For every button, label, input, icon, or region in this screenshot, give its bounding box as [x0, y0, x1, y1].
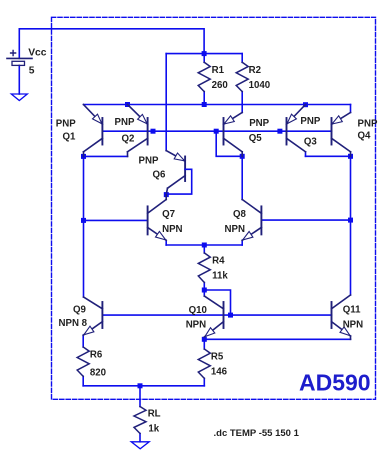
transistor Q4: [332, 113, 351, 157]
wire Vcc plus lead: [18, 29, 20, 59]
transistor Q2: [128, 105, 148, 157]
svg-text:R1: R1: [212, 65, 225, 76]
wire Q7 Q8 emitters: [166, 244, 242, 246]
wire R1 bottom lead: [203, 92, 205, 105]
svg-text:820: 820: [90, 368, 106, 379]
wire R2 top lead: [241, 54, 243, 63]
wire R5 bottom lead: [203, 378, 205, 386]
svg-text:PNP: PNP: [249, 118, 269, 129]
wire Q8 emitter stub: [241, 240, 243, 245]
wire Q4 emitter stub: [350, 105, 352, 113]
svg-text:R4: R4: [212, 256, 225, 267]
transistor Q8: [242, 200, 261, 241]
svg-text:Q2: Q2: [122, 134, 135, 145]
svg-text:Q8: Q8: [233, 209, 247, 220]
svg-text:5: 5: [29, 65, 35, 76]
svg-text:Q5: Q5: [249, 133, 263, 144]
junction Q5 base: [214, 129, 219, 134]
wire Vcc minus lead: [18, 65, 20, 94]
junction Q3 emitter: [303, 102, 308, 107]
resistor R2: [236, 62, 248, 91]
wire left column lower: [83, 220, 85, 297]
resistor RL: [134, 407, 146, 434]
wire R4 top lead: [203, 245, 205, 253]
wire Vcc top feed: [19, 29, 204, 54]
svg-text:R2: R2: [249, 65, 261, 76]
wire Q7 base: [84, 219, 148, 221]
junction Q3 Q4 collector: [348, 154, 353, 159]
ground at Vcc: [11, 94, 27, 101]
svg-text:PNP: PNP: [358, 118, 378, 129]
svg-text:260: 260: [212, 80, 228, 91]
junction R1 top: [202, 51, 207, 56]
svg-text:146: 146: [211, 367, 228, 378]
wire Q6 base tie: [166, 169, 191, 194]
wire Q8 collector: [241, 156, 243, 199]
resistor R4: [198, 253, 210, 283]
svg-text:Q3: Q3: [304, 137, 318, 148]
transistor Q7: [148, 195, 167, 241]
transistor Q9: [83, 297, 102, 335]
junction Q3 base: [277, 129, 282, 134]
svg-text:11k: 11k: [212, 271, 228, 282]
wire Q10 base feed: [204, 290, 230, 315]
svg-text:RL: RL: [148, 409, 161, 420]
junction Q7 base: [81, 218, 86, 223]
svg-text:PNP: PNP: [139, 156, 159, 167]
wire R4 bottom lead: [203, 283, 205, 291]
wire RL bottom lead: [139, 434, 141, 442]
wire R1 top lead: [203, 54, 205, 63]
junction R4 top: [202, 243, 207, 248]
wire Q6 emitter feed: [165, 54, 167, 151]
svg-text:Q4: Q4: [358, 130, 372, 141]
IC boundary box: [52, 17, 376, 399]
svg-text:NPN: NPN: [186, 319, 206, 330]
svg-text:Vcc: Vcc: [28, 48, 47, 59]
svg-text:NPN: NPN: [162, 224, 182, 235]
voltage source Vcc: [7, 51, 32, 66]
wire Q1 Q2 collectors: [84, 155, 128, 157]
wire R5 top lead: [203, 339, 205, 349]
svg-text:PNP: PNP: [115, 117, 135, 128]
junction Q8 base: [348, 218, 353, 223]
svg-text:Q6: Q6: [153, 170, 167, 181]
resistor R5: [198, 349, 210, 378]
svg-text:NPN 8: NPN 8: [59, 318, 88, 329]
svg-text:PNP: PNP: [56, 119, 76, 130]
wire right column: [350, 156, 352, 295]
junction Q10 base: [228, 313, 233, 318]
svg-text:R6: R6: [90, 350, 103, 361]
wire Q9 emitter lead: [82, 335, 84, 347]
transistor Q11: [332, 295, 351, 339]
wire Q10 collector stub: [203, 290, 205, 296]
svg-text:Q1: Q1: [63, 132, 77, 143]
wire Q5 base tie: [216, 131, 242, 156]
wire left column upper: [83, 156, 85, 220]
svg-text:1040: 1040: [249, 80, 271, 91]
resistor R1: [198, 62, 210, 91]
wire Q3 collector stub: [305, 152, 307, 157]
transistor Q1: [84, 105, 103, 157]
wire R6 bottom lead: [82, 376, 84, 386]
wire Q3 Q4 collectors: [306, 155, 351, 157]
junction Q6 collector: [164, 192, 169, 197]
junction bottom rail RL: [138, 383, 143, 388]
wire base rail: [102, 130, 331, 132]
svg-text:NPN: NPN: [225, 224, 245, 235]
svg-text:NPN: NPN: [343, 319, 363, 330]
wire Q10 Q11 emitters: [204, 338, 350, 340]
wire bottom rail: [83, 385, 204, 387]
svg-text:.dc TEMP -55 150 1: .dc TEMP -55 150 1: [214, 428, 300, 439]
junction Q2 emitter: [125, 102, 130, 107]
transistor Q5: [224, 113, 243, 157]
wire R2 bottom lead to Q5 emitter: [241, 92, 243, 113]
wire Q8 base: [261, 219, 350, 221]
wire emitter rail: [84, 104, 351, 106]
transistor Q3: [287, 105, 306, 152]
junction Q5 collector: [240, 154, 245, 159]
wire RL top lead: [139, 386, 141, 407]
junction R4 bottom: [202, 288, 207, 293]
junction R1 bottom: [202, 102, 207, 107]
junction Q1 Q2 collector: [81, 154, 86, 159]
svg-text:1k: 1k: [148, 424, 159, 435]
svg-text:AD590: AD590: [299, 370, 371, 396]
resistor R6: [77, 347, 89, 376]
svg-text:R5: R5: [211, 352, 224, 363]
wire R1 R2 top: [166, 53, 242, 55]
ground at RL: [131, 442, 149, 449]
transistor Q6: [166, 151, 185, 195]
wire bottom base rail: [102, 314, 331, 316]
svg-text:PNP: PNP: [300, 116, 320, 127]
wire Q7 emitter stub: [165, 240, 167, 245]
svg-text:Q9: Q9: [73, 304, 87, 315]
svg-text:Q10: Q10: [189, 305, 207, 316]
svg-text:Q11: Q11: [343, 305, 361, 316]
transistor Q10: [204, 296, 223, 337]
junction Q10 emitter: [202, 337, 207, 342]
junction Q2 base: [151, 129, 156, 134]
svg-text:Q7: Q7: [162, 209, 175, 220]
